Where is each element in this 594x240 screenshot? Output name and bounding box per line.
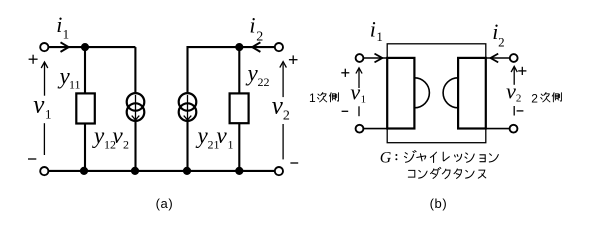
svg-text:v: v <box>33 92 45 119</box>
svg-text:2: 2 <box>498 34 505 49</box>
svg-text:v: v <box>350 80 360 105</box>
svg-text:v: v <box>217 123 228 148</box>
svg-text:G: G <box>380 150 392 167</box>
svg-text:1: 1 <box>228 138 234 152</box>
svg-text:22: 22 <box>258 75 270 89</box>
svg-text:1: 1 <box>361 93 367 105</box>
svg-text:1: 1 <box>309 91 316 105</box>
svg-text:v: v <box>113 123 124 148</box>
svg-text:(b): (b) <box>430 196 448 211</box>
svg-text:2: 2 <box>123 137 129 151</box>
svg-text:1: 1 <box>45 106 52 121</box>
svg-text:2: 2 <box>531 91 538 105</box>
svg-text:1: 1 <box>376 29 383 44</box>
svg-text:2: 2 <box>283 109 290 124</box>
svg-text:i: i <box>370 17 376 42</box>
svg-text:2: 2 <box>256 30 263 45</box>
svg-text:11: 11 <box>69 78 81 92</box>
svg-text:i: i <box>249 13 255 38</box>
svg-text:v: v <box>506 79 516 104</box>
svg-text:(a): (a) <box>156 196 174 211</box>
svg-text:2: 2 <box>516 93 522 105</box>
svg-text:i: i <box>56 12 62 37</box>
svg-text:1: 1 <box>63 27 70 42</box>
